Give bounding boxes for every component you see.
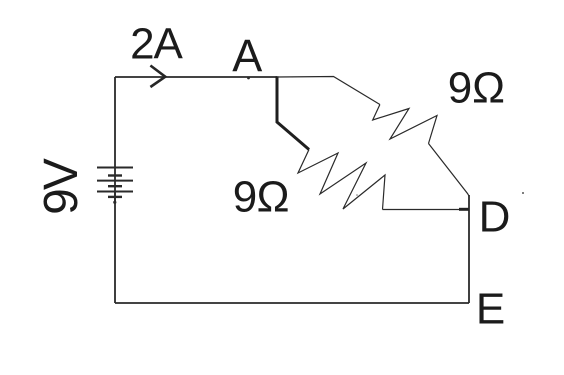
resistor R1 9Ohm (upper zigzag)	[373, 105, 437, 144]
resistor R2 9Ohm (lower zigzag)	[298, 150, 385, 210]
wire bottom (E to battery-)	[115, 302, 469, 304]
svg-text:A: A	[232, 30, 262, 81]
svg-text:2A: 2A	[130, 20, 183, 69]
svg-text:9Ω: 9Ω	[233, 172, 289, 221]
stray dot below resistor	[356, 194, 358, 196]
svg-text:E: E	[476, 284, 505, 333]
svg-text:D: D	[479, 193, 511, 242]
svg-text:9Ω: 9Ω	[448, 63, 505, 112]
node A junction dot	[247, 77, 250, 80]
svg-text:9V: 9V	[35, 158, 88, 215]
wire node A branch (thick lead to lower resistor)	[277, 76, 309, 149]
node D tick	[459, 208, 469, 211]
junction dot below battery	[113, 201, 116, 204]
current arrow 2A	[150, 66, 165, 88]
wire lower resistor to node D	[383, 209, 466, 211]
battery B1 9V	[97, 168, 133, 203]
wire upper resistor to node D	[429, 144, 470, 197]
wire left vertical lower	[114, 192, 116, 304]
stray dot right of D	[522, 192, 524, 194]
wire node A to upper resistor	[277, 77, 380, 105]
wire top (battery+ to node A)	[115, 76, 277, 78]
wire left vertical upper	[114, 77, 116, 168]
wire right vertical (D to E)	[468, 195, 470, 303]
